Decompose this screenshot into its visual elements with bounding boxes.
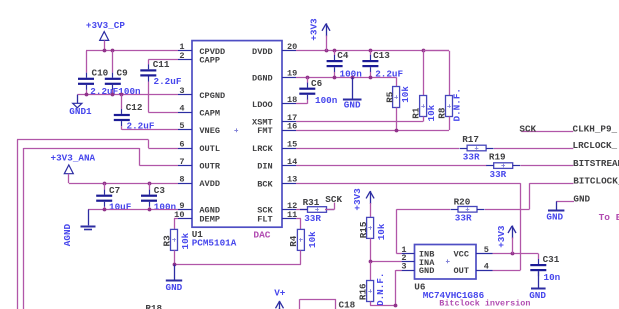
resistor R15	[358, 217, 387, 240]
wire C11 bottom to pin 4	[148, 82, 178, 113]
power symbol +3V3 mid	[352, 188, 374, 211]
wire R15 to R16	[370, 262, 372, 281]
svg-text:D.N.F.: D.N.F.	[451, 88, 462, 121]
wire BCK pin 13	[296, 183, 521, 270]
wire C12 bottom to pin 5	[122, 126, 179, 130]
pin 10 DEMP	[174, 210, 220, 225]
pin 4 CAPM	[178, 104, 220, 119]
capacitor C13	[362, 50, 403, 80]
net label SCK	[325, 194, 342, 205]
pin 4 U6 OUT	[454, 262, 493, 277]
svg-text:33R: 33R	[490, 169, 507, 180]
svg-text:4: 4	[484, 262, 489, 272]
net label LRCLOCK_	[573, 140, 618, 151]
svg-text:18: 18	[287, 95, 297, 105]
svg-text:+3V3: +3V3	[496, 225, 507, 248]
wire R4 bottom	[300, 250, 302, 264]
svg-text:R19: R19	[489, 151, 506, 162]
wire C13 bottom	[370, 72, 372, 77]
svg-text:19: 19	[287, 69, 297, 79]
svg-text:C9: C9	[117, 68, 129, 79]
pin 6 OUTL	[178, 139, 220, 154]
svg-text:GND: GND	[344, 100, 361, 111]
wire DVDD +3V3 rail from pin 20	[296, 50, 449, 52]
svg-text:20: 20	[287, 42, 297, 52]
node +3V3_CP junctions	[103, 49, 115, 53]
svg-text:15: 15	[287, 139, 297, 149]
resistor R5	[385, 86, 411, 108]
svg-text:BITSTREAM: BITSTREAM	[573, 158, 619, 169]
pin 17 XSMT	[252, 113, 297, 128]
svg-text:10k: 10k	[180, 232, 191, 249]
svg-text:GND: GND	[573, 194, 590, 205]
svg-text:CAPM: CAPM	[199, 108, 220, 118]
svg-text:6: 6	[179, 139, 184, 149]
svg-text:GND: GND	[166, 282, 183, 293]
svg-text:100n: 100n	[154, 201, 177, 212]
svg-text:33R: 33R	[304, 213, 321, 224]
pin 3 CPGND	[178, 86, 225, 101]
wire +3V3_ANA to AVDD pin 8	[69, 174, 179, 184]
node AGND junctions	[103, 208, 152, 212]
svg-text:C13: C13	[373, 50, 390, 61]
svg-text:16: 16	[287, 122, 297, 132]
svg-text:R8: R8	[436, 107, 447, 119]
node DVDD junctions	[325, 49, 426, 53]
wire C3 top	[149, 183, 151, 190]
wire C31 top	[538, 254, 540, 260]
wire DGND rail from pin 19	[296, 77, 396, 79]
wire C9 top	[112, 51, 114, 73]
node AVDD junctions	[103, 182, 152, 186]
svg-text:33R: 33R	[455, 213, 472, 224]
resistor R31	[300, 197, 334, 224]
wire C4 bottom	[334, 72, 336, 77]
resistor R20	[451, 196, 485, 223]
wire C6 bottom to LDOO pin 18	[296, 100, 308, 104]
wire R16 bottom rail to U6 GND pin 3	[370, 270, 402, 307]
svg-text:R5: R5	[385, 91, 396, 103]
wire DIN pin 14 to R19	[296, 165, 487, 167]
pin 9 AGND	[178, 201, 220, 216]
wire R8 bottom to FMT pin 16	[296, 117, 450, 133]
wire R8 top	[423, 51, 449, 96]
svg-text:R20: R20	[454, 196, 471, 207]
wire R20 right to BITCLOCK vertical	[485, 209, 530, 211]
svg-text:C6: C6	[311, 78, 323, 89]
pin 15 LRCK	[252, 139, 297, 154]
svg-text:LRCK: LRCK	[252, 144, 273, 154]
svg-text:5: 5	[179, 121, 184, 131]
resistor R8	[436, 88, 462, 121]
svg-text:2: 2	[179, 51, 184, 61]
wire SCK to CLKH_P9_	[521, 131, 573, 133]
svg-text:100n: 100n	[315, 95, 338, 106]
wire C10 top	[86, 51, 88, 73]
svg-text:DEMP: DEMP	[199, 215, 220, 225]
pin 5 U6 VCC	[454, 245, 493, 260]
svg-text:C11: C11	[153, 59, 170, 70]
svg-text:C12: C12	[126, 102, 143, 113]
svg-text:VNEG: VNEG	[199, 126, 220, 136]
text To B	[599, 212, 619, 223]
pin 2 U6 INA	[401, 253, 435, 268]
svg-text:CLKH_P9_: CLKH_P9_	[573, 123, 618, 134]
svg-text:10uF: 10uF	[109, 201, 132, 212]
wire V+ stem	[279, 308, 281, 309]
svg-text:R4: R4	[288, 235, 299, 247]
svg-text:R1: R1	[411, 107, 422, 119]
capacitor C10	[78, 68, 119, 97]
ground symbol GND on DGND rail	[343, 77, 362, 110]
wire C4 top	[334, 51, 336, 56]
pin 1 U6 INB	[401, 245, 434, 260]
wire C10 bottom	[86, 90, 88, 95]
svg-text:BITCLOCK_: BITCLOCK_	[573, 175, 619, 186]
svg-text:8: 8	[179, 174, 184, 184]
pin 11 FLT	[257, 210, 297, 225]
capacitor C12	[114, 102, 155, 132]
svg-text:C31: C31	[543, 254, 560, 265]
wire FLT pin 11 to R4	[296, 218, 301, 229]
wire AGND rail to pin 9	[88, 209, 178, 211]
svg-text:11: 11	[287, 210, 297, 220]
pin 20 DVDD	[252, 42, 297, 57]
capacitor C6	[299, 78, 337, 106]
svg-text:33R: 33R	[463, 152, 480, 163]
wire R5 bottom	[396, 108, 398, 131]
pin 3 U6 GND	[401, 262, 434, 277]
wire R1 top	[423, 51, 425, 96]
svg-text:FMT: FMT	[257, 126, 272, 136]
svg-text:CPGND: CPGND	[199, 91, 225, 101]
wire C12 top	[121, 95, 123, 109]
ground symbol GND right	[546, 201, 564, 222]
wire +3V3_CP stem	[104, 40, 106, 50]
svg-text:V+: V+	[274, 288, 286, 299]
svg-text:5: 5	[484, 245, 489, 255]
text R18	[145, 303, 162, 309]
wire OUTR	[24, 148, 179, 309]
pin 16 FMT	[257, 122, 297, 137]
wire C3 bottom	[149, 207, 151, 210]
wire OUTL	[17, 140, 178, 309]
svg-text:10k: 10k	[307, 231, 318, 248]
svg-text:C10: C10	[92, 68, 109, 79]
pin 2 CAPP	[178, 51, 220, 66]
net label GND	[573, 194, 590, 205]
svg-text:GND: GND	[529, 290, 546, 301]
svg-text:LRCLOCK_: LRCLOCK_	[573, 140, 618, 151]
wire +3V3 to R15	[370, 203, 372, 217]
wire CPGND rail to pin 3	[77, 94, 178, 96]
svg-text:+3V3_CP: +3V3_CP	[86, 20, 125, 31]
svg-text:AGND: AGND	[62, 223, 73, 246]
pin 1 CPVDD	[178, 42, 225, 57]
svg-text:DVDD: DVDD	[252, 47, 273, 57]
pin 12 SCK	[257, 201, 297, 216]
svg-text:OUTL: OUTL	[199, 144, 220, 154]
svg-text:13: 13	[287, 175, 297, 185]
wire R20 to U6 INB	[397, 209, 402, 253]
svg-text:+3V3: +3V3	[309, 18, 320, 41]
svg-text:VCC: VCC	[454, 250, 469, 260]
capacitor C7	[96, 185, 132, 212]
wire R15 bottom to INA	[369, 238, 402, 263]
wire R19 to BITSTREAM label	[521, 165, 574, 167]
net label CLKH_P9_	[573, 123, 618, 134]
net label BITSTREAM	[573, 158, 619, 169]
wire C9 bottom	[112, 90, 114, 95]
power symbol +3V3_CP	[86, 20, 125, 41]
svg-text:10n: 10n	[544, 272, 561, 283]
svg-text:To B: To B	[599, 212, 619, 223]
svg-text:R31: R31	[303, 197, 320, 208]
ground symbol GND below C31	[529, 271, 546, 301]
capacitor C9	[105, 68, 141, 97]
svg-text:Bitclock inversion: Bitclock inversion	[439, 299, 530, 309]
svg-text:DAC: DAC	[253, 229, 270, 240]
svg-text:2.2uF: 2.2uF	[154, 76, 182, 87]
node DGND junctions	[306, 76, 373, 80]
svg-text:GND: GND	[546, 212, 563, 223]
resistor R4	[288, 229, 318, 250]
wire DEMP pin 10 to R3	[174, 218, 178, 229]
svg-text:GND: GND	[419, 266, 434, 276]
net label BITCLOCK_	[573, 175, 619, 186]
wire C7 top	[104, 183, 106, 190]
svg-text:DGND: DGND	[252, 73, 273, 83]
wire +3V3 stem right	[512, 238, 514, 254]
svg-text:4: 4	[179, 104, 184, 114]
svg-text:14: 14	[287, 157, 297, 167]
wire C6 top	[307, 77, 309, 83]
svg-text:OUTR: OUTR	[199, 162, 220, 172]
svg-text:C18: C18	[339, 299, 356, 309]
pin 19 DGND	[252, 69, 297, 84]
wire R5 top	[396, 77, 398, 86]
svg-text:C7: C7	[109, 185, 120, 196]
wire GND rail under U1	[173, 263, 301, 267]
svg-text:BCK: BCK	[257, 179, 273, 189]
svg-text:10k: 10k	[376, 223, 387, 240]
pin 18 LDOO	[252, 95, 297, 110]
op-amp U1 PCM5101A DAC body	[192, 41, 282, 249]
svg-text:+3V3: +3V3	[352, 188, 363, 211]
wire C7 bottom	[104, 207, 106, 210]
svg-text:PCM5101A: PCM5101A	[192, 237, 237, 248]
resistor R3	[161, 229, 191, 250]
svg-text:7: 7	[179, 157, 184, 167]
net label SCK top	[519, 123, 536, 134]
svg-text:CAPP: CAPP	[199, 56, 220, 66]
svg-text:FLT: FLT	[257, 215, 272, 225]
svg-text:SCK: SCK	[325, 194, 342, 205]
svg-text:C4: C4	[337, 50, 349, 61]
wire U6 VCC to C31	[493, 252, 539, 256]
wire +3V3 stem	[326, 36, 328, 51]
svg-text:AVDD: AVDD	[199, 179, 220, 189]
svg-text:R3: R3	[161, 235, 172, 247]
power symbol +3V3 right	[496, 225, 516, 248]
wire SCK pin 12 to R31	[296, 209, 309, 211]
wire GND label stub	[556, 201, 574, 203]
capacitor C3	[141, 185, 177, 212]
resistor R16	[357, 273, 386, 306]
svg-text:R16: R16	[357, 283, 368, 300]
op-amp U6 MC74VHC1G86 body	[414, 245, 530, 309]
svg-text:SCK: SCK	[519, 123, 536, 134]
ground symbol GND below R3	[166, 265, 183, 293]
wire R3 bottom	[174, 250, 176, 264]
wire LRCK pin 15 to R17	[296, 148, 459, 150]
capacitor C31	[530, 254, 560, 283]
pin 13 BCK	[257, 175, 297, 190]
capacitor C4	[327, 50, 363, 80]
pin 5 VNEG	[178, 121, 220, 136]
svg-text:OUT: OUT	[454, 266, 469, 276]
svg-text:R18: R18	[145, 303, 162, 309]
wire C11 top from pin 2	[148, 60, 178, 65]
capacitor C18 label	[339, 299, 356, 309]
power symbol +3V3 top	[309, 18, 331, 41]
pin 8 AVDD	[178, 174, 220, 189]
svg-text:3: 3	[179, 86, 184, 96]
ground AGND	[62, 210, 95, 247]
wire +3V3_CP rail to pin 1	[86, 50, 178, 52]
svg-text:R17: R17	[462, 134, 479, 145]
svg-text:LDOO: LDOO	[252, 100, 273, 110]
svg-text:R15: R15	[358, 221, 369, 238]
wire C13 top	[370, 51, 372, 56]
capacitor C11	[140, 59, 182, 87]
pin 14 DIN	[257, 157, 297, 172]
wire R1 bottom to XSMT pin 17	[296, 117, 424, 122]
resistor R17	[460, 134, 494, 163]
svg-text:DIN: DIN	[257, 162, 272, 172]
svg-text:D.N.F.: D.N.F.	[375, 273, 386, 306]
wire R31 to SCK label	[325, 203, 335, 210]
svg-text:GND1: GND1	[69, 106, 92, 117]
svg-text:3: 3	[401, 262, 406, 272]
power symbol power V+	[274, 288, 286, 309]
wire BITCLOCK_ segment	[530, 183, 574, 209]
pin 7 OUTR	[178, 157, 221, 172]
svg-text:+3V3_ANA: +3V3_ANA	[51, 152, 96, 163]
wire BCK to R20	[397, 209, 451, 211]
power symbol +3V3_ANA	[51, 152, 96, 173]
resistor R1	[411, 96, 438, 122]
svg-text:10k: 10k	[400, 86, 411, 103]
resistor R19	[486, 151, 520, 179]
wire R17 to LRCLOCK_ label	[494, 148, 573, 150]
wire U6 OUT	[493, 270, 521, 272]
wire C18 bridge	[300, 299, 336, 309]
svg-text:C3: C3	[154, 185, 166, 196]
ground GND1	[69, 95, 92, 117]
node CPGND junctions	[85, 93, 124, 97]
